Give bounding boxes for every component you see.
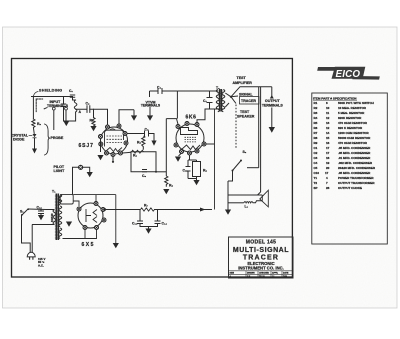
svg-text:500K POT. WITH SWITCH: 500K POT. WITH SWITCH: [338, 101, 374, 105]
svg-text:AMPLIFIER: AMPLIFIER: [233, 81, 253, 85]
svg-text:17: 17: [326, 151, 330, 155]
svg-text:OUTPUT CHOKE: OUTPUT CHOKE: [338, 186, 362, 190]
svg-text:R4: R4: [314, 116, 318, 120]
svg-text:SP: SP: [314, 186, 318, 190]
svg-text:R₇: R₇: [144, 204, 148, 208]
svg-text:TR-10: TR-10: [259, 276, 265, 278]
svg-text:R6: R6: [314, 126, 318, 130]
svg-text:C₂: C₂: [86, 102, 90, 106]
svg-text:TERMINALS: TERMINALS: [47, 104, 69, 108]
svg-text:C4: C4: [314, 161, 318, 165]
svg-text:1200 OHM RESISTOR: 1200 OHM RESISTOR: [338, 131, 369, 135]
svg-text:SIZE: SIZE: [230, 273, 235, 275]
svg-text:14: 14: [326, 131, 330, 135]
svg-text:C₁₄: C₁₄: [162, 222, 168, 226]
svg-text:APPR.: APPR.: [272, 272, 279, 275]
svg-text:SIGNAL: SIGNAL: [239, 92, 253, 96]
svg-text:C₆: C₆: [142, 174, 146, 178]
svg-text:18: 18: [326, 156, 330, 160]
svg-text:C10: C10: [314, 171, 320, 175]
svg-text:R₅: R₅: [137, 141, 141, 145]
svg-text:C₁₀: C₁₀: [183, 169, 189, 173]
svg-text:T1: T1: [314, 176, 318, 180]
svg-text:5 MEG. RESISTOR: 5 MEG. RESISTOR: [338, 111, 365, 115]
svg-text:6X5: 6X5: [82, 242, 95, 248]
svg-text:12: 12: [326, 116, 330, 120]
svg-text:6K6: 6K6: [186, 114, 197, 120]
svg-text:C1: C1: [314, 146, 318, 150]
svg-text:SPEAKER: SPEAKER: [237, 114, 255, 118]
svg-text:S₁: S₁: [20, 210, 24, 214]
svg-text:C₇: C₇: [203, 99, 207, 103]
svg-text:6SJ7: 6SJ7: [79, 143, 94, 149]
svg-text:L₁: L₁: [245, 205, 249, 209]
svg-text:11: 11: [326, 111, 330, 115]
svg-text:C5: C5: [314, 166, 318, 170]
svg-text:16: 16: [326, 141, 330, 145]
svg-text:PROBE: PROBE: [51, 136, 64, 140]
svg-text:19: 19: [326, 161, 330, 165]
svg-text:13: 13: [326, 121, 330, 125]
svg-text:POWER TRANSFORMER: POWER TRANSFORMER: [338, 176, 374, 180]
svg-text:R₈: R₈: [169, 184, 173, 188]
svg-text:15: 15: [326, 136, 330, 140]
svg-text:.05 MFD. CONDENSER: .05 MFD. CONDENSER: [338, 171, 371, 175]
svg-text:C3: C3: [314, 156, 318, 160]
svg-text:S₂: S₂: [243, 150, 247, 154]
svg-text:TERMINALS: TERMINALS: [141, 104, 161, 108]
svg-text:C₅: C₅: [145, 128, 149, 132]
svg-text:110/120: 110/120: [51, 213, 54, 222]
svg-text:C₁: C₁: [69, 89, 73, 93]
svg-text:T₁: T₁: [52, 189, 56, 193]
svg-text:R5: R5: [314, 121, 318, 125]
svg-text:MODEL 145: MODEL 145: [246, 240, 276, 246]
svg-text:T2: T2: [314, 181, 318, 185]
svg-text:OUTPUT: OUTPUT: [265, 99, 281, 103]
svg-text:TERMINALS: TERMINALS: [262, 103, 284, 107]
svg-text:EICO: EICO: [336, 69, 361, 80]
svg-text:R₆: R₆: [133, 154, 137, 158]
svg-text:R7: R7: [314, 131, 318, 135]
svg-text:T₂: T₂: [216, 86, 220, 90]
svg-text:C2: C2: [314, 151, 318, 155]
svg-text:R8: R8: [314, 136, 318, 140]
svg-text:.002 MFD. CONDENSER: .002 MFD. CONDENSER: [338, 161, 373, 165]
svg-text:C₁₃: C₁₃: [132, 222, 138, 226]
svg-text:470 OHM RESISTOR: 470 OHM RESISTOR: [338, 121, 368, 125]
svg-text:J.L.: J.L.: [272, 276, 276, 278]
svg-text:10: 10: [326, 106, 330, 110]
svg-text:LIGHT: LIGHT: [54, 169, 66, 173]
svg-text:C₁₂: C₁₂: [37, 206, 43, 210]
svg-text:20&20 MFD. CONDENSER: 20&20 MFD. CONDENSER: [338, 166, 376, 170]
svg-text:.05 MFD. CONDENSER: .05 MFD. CONDENSER: [338, 146, 371, 150]
svg-text:R1: R1: [314, 101, 318, 105]
svg-text:R2: R2: [314, 106, 318, 110]
svg-text:ITEM PART # SPECIFICATION: ITEM PART # SPECIFICATION: [313, 96, 357, 100]
svg-text:17: 17: [326, 146, 330, 150]
svg-text:SHIELDING: SHIELDING: [39, 88, 62, 92]
svg-text:CHECKED: CHECKED: [259, 273, 269, 275]
svg-text:C₄: C₄: [157, 86, 161, 90]
svg-text:R9: R9: [314, 141, 318, 145]
svg-text:DATE: DATE: [283, 272, 289, 275]
svg-text:OUTPUT TRANSFORMER: OUTPUT TRANSFORMER: [338, 181, 375, 185]
svg-text:TRACER: TRACER: [241, 99, 256, 103]
svg-text:R₂: R₂: [37, 122, 41, 126]
svg-text:INSTRUMENT CO. INC.: INSTRUMENT CO. INC.: [238, 265, 284, 270]
svg-text:470 OHM RESISTOR: 470 OHM RESISTOR: [338, 141, 368, 145]
svg-text:20: 20: [326, 166, 330, 170]
svg-text:10 MEG. RESISTOR: 10 MEG. RESISTOR: [338, 106, 367, 110]
svg-text:12: 12: [326, 126, 330, 130]
svg-text:A.C.: A.C.: [38, 263, 44, 267]
svg-text:TEST: TEST: [237, 76, 247, 80]
svg-text:R3: R3: [314, 111, 318, 115]
svg-text:R₁: R₁: [90, 119, 94, 123]
svg-text:620 K RESISTOR: 620 K RESISTOR: [338, 126, 363, 130]
svg-text:DIODE: DIODE: [13, 138, 25, 142]
svg-text:TEST: TEST: [240, 110, 250, 114]
svg-text:28: 28: [326, 186, 330, 190]
svg-text:MULTI-SIGNAL: MULTI-SIGNAL: [233, 247, 289, 254]
svg-text:.05 MFD. CONDENSER: .05 MFD. CONDENSER: [338, 151, 371, 155]
svg-text:.01 MFD. CONDENSER: .01 MFD. CONDENSER: [338, 156, 371, 160]
svg-text:17: 17: [325, 171, 329, 175]
svg-text:50000 OHM RESISTOR: 50000 OHM RESISTOR: [338, 136, 371, 140]
svg-text:R₉: R₉: [203, 169, 207, 173]
svg-text:DRAWN: DRAWN: [247, 272, 255, 275]
svg-text:620K RESISTOR: 620K RESISTOR: [338, 116, 362, 120]
